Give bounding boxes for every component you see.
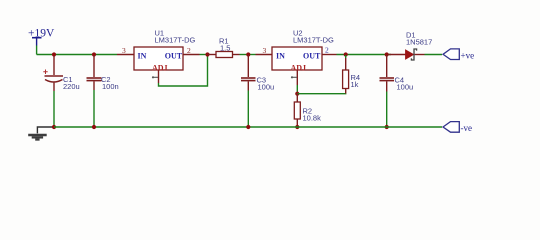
regulator U1 body: [134, 47, 183, 73]
wire: C1 bottom to bottom rail: [53, 91, 55, 127]
wire: top rail U2 out segment: [337, 54, 392, 56]
resistor R1: [208, 37, 240, 58]
svg-text:LM317T-DG: LM317T-DG: [155, 35, 196, 44]
node junction C2 top: [92, 52, 96, 56]
op-amp U2 pin 3 lead: [256, 54, 273, 56]
node junction ADJ/R2/R4: [295, 92, 299, 96]
wire: ADJ node to R4 bottom: [297, 93, 345, 95]
svg-text:2: 2: [325, 46, 329, 55]
svg-text:3: 3: [263, 46, 267, 55]
svg-text:100u: 100u: [258, 82, 275, 91]
node junction ground/C1 bottom: [52, 125, 56, 129]
svg-text:-ve: -ve: [461, 123, 473, 133]
svg-text:10.8k: 10.8k: [303, 113, 322, 122]
svg-text:220u: 220u: [63, 82, 80, 91]
svg-text:IN: IN: [138, 52, 147, 61]
svg-text:+ve: +ve: [461, 50, 475, 60]
node junction C4 bottom: [385, 125, 389, 129]
pin number 1 (U1, rotated): [152, 76, 158, 78]
svg-text:LM317T-DG: LM317T-DG: [293, 35, 334, 44]
node junction R1 left: [205, 52, 209, 56]
svg-text:1.5: 1.5: [220, 44, 230, 53]
svg-text:ADJ: ADJ: [291, 64, 307, 73]
node junction R2 bottom: [295, 125, 299, 129]
svg-text:IN: IN: [276, 52, 285, 61]
port -ve: [443, 122, 472, 133]
regulator U2 body: [272, 47, 322, 73]
node junction C3 top: [246, 52, 250, 56]
U1 ADJ pin lead: [158, 70, 160, 83]
svg-text:100n: 100n: [102, 82, 119, 91]
pin number 1 (U2, rotated): [291, 76, 297, 78]
wire: C4 bottom to bottom rail: [386, 92, 388, 128]
wire: R1 right to U2 node: [240, 54, 256, 56]
wire: C3 bottom to bottom rail: [247, 91, 249, 128]
port +ve: [443, 49, 474, 60]
op-amp U1 pin 2 lead: [183, 54, 200, 56]
svg-text:OUT: OUT: [165, 52, 183, 61]
node junction C2 bottom: [92, 125, 96, 129]
diode D1: [389, 31, 432, 61]
capacitor C4: [380, 55, 414, 92]
svg-text:2: 2: [187, 46, 191, 55]
capacitor C2: [87, 55, 119, 91]
svg-text:1N5817: 1N5817: [406, 37, 432, 46]
node junction R4 top: [344, 52, 348, 56]
svg-text:ADJ: ADJ: [152, 64, 168, 73]
wire: diode to +ve port: [425, 54, 443, 56]
op-amp U2 pin 2 lead: [322, 54, 337, 56]
wire: U1 ADJ loop to R1 left node: [159, 55, 208, 87]
wire: U2 ADJ down to R2 node: [296, 85, 298, 94]
node junction C4 top: [385, 52, 389, 56]
capacitor C3: [241, 55, 274, 91]
wire: top rail U1 out to R1: [200, 54, 209, 56]
power port +19V: [28, 28, 55, 46]
op-amp U1 pin 3 lead: [117, 54, 134, 56]
node junction C3 bottom: [246, 125, 250, 129]
U2 ADJ pin lead: [296, 70, 298, 85]
wire: +19V stem down to top rail: [36, 46, 38, 55]
wire: bottom rail: [54, 126, 442, 128]
resistor R2: [294, 96, 321, 127]
svg-text:OUT: OUT: [303, 52, 321, 61]
svg-text:3: 3: [122, 46, 126, 55]
ground: [28, 127, 54, 140]
wire: C2 bottom to bottom rail: [93, 90, 95, 127]
wire: ADJ node down to R2: [296, 94, 298, 96]
wire: top rail left segment: [37, 54, 117, 56]
svg-text:1k: 1k: [351, 80, 359, 89]
capacitor C1: [43, 56, 79, 91]
node junction C1 top: [52, 52, 56, 56]
svg-text:100u: 100u: [397, 82, 414, 91]
resistor R4: [343, 55, 360, 94]
